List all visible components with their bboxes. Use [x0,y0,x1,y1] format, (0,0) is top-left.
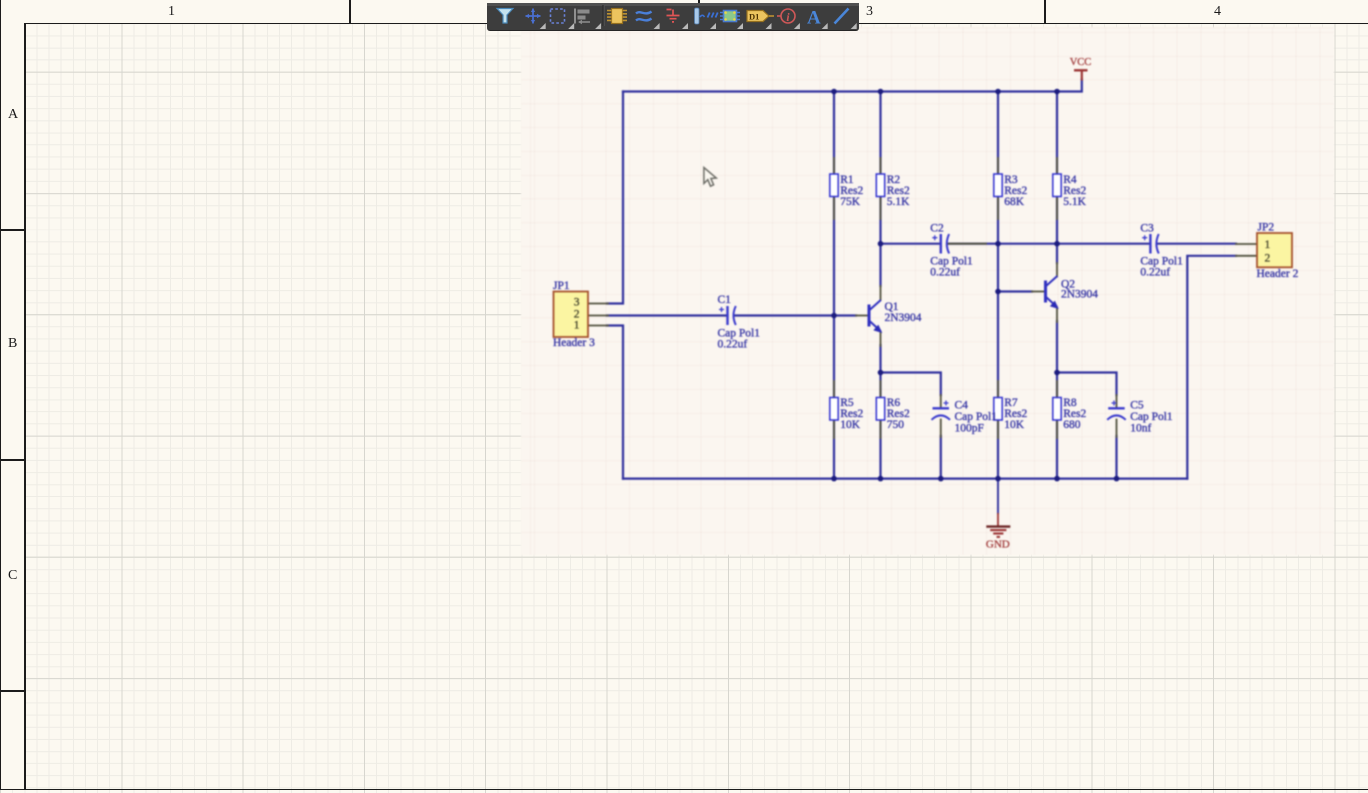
resistor R5 [830,397,864,431]
wire R2 to C2 node [879,197,881,244]
svg-text:Header 3: Header 3 [553,337,595,349]
pin stub R7 top [997,381,999,398]
svg-text:75K: 75K [840,196,861,208]
svg-text:C2: C2 [930,222,944,234]
wire Q1 base node down to R5 [833,316,835,398]
wire R8 to bottom bus [1056,420,1058,479]
wire Q2 emitter to junction [1056,321,1058,373]
wire from top bus down to JP1 pin 3 [607,92,623,304]
wire junction to R8 [1056,373,1058,398]
wire top VCC bus [623,80,1082,92]
svg-text:0.22uf: 0.22uf [930,267,960,279]
junction at C2 left node [878,241,884,247]
toolbar icon move cross [526,9,541,24]
toolbar icon sheet entry [695,8,718,24]
pin stub Q1 base [856,315,869,317]
toolbar icon place line [835,9,849,24]
wire JP2 pin 2 riser to bottom bus [1187,256,1236,479]
svg-text:Cap Pol1: Cap Pol1 [955,411,998,423]
junction bottom bus R5 [831,476,837,482]
pin stub C4 bottom [940,420,942,438]
pin stub JP1 pin 1 [588,325,608,327]
svg-text:2N3904: 2N3904 [885,312,922,324]
power port VCC [1070,57,1092,81]
capacitor C1 [718,294,761,350]
resistor R1 [830,174,864,208]
pin stub Q1 collector [880,286,882,300]
pin stub C5 bottom [1116,420,1118,438]
wire bus to R4 [1056,92,1058,175]
svg-text:C4: C4 [955,400,969,412]
wire C2 node to Q1 collector [879,244,881,286]
pin stub R3 top [997,158,999,174]
wire C1 to Q1 base node [736,314,857,316]
svg-text:100pF: 100pF [955,423,984,435]
pin stub R6 top [880,381,882,398]
svg-text:JP1: JP1 [553,280,570,292]
junction at Q2 base node [995,289,1001,295]
wire GND stem [997,479,999,514]
pin stub JP1 pin 2 [588,315,608,317]
wire Q1 emitter junction to C4 [881,373,941,396]
wire R1 to Q1 base node [833,197,835,316]
junction bottom bus C4 [938,476,944,482]
wire C2 to C3 row [948,243,1151,245]
svg-text:GND: GND [986,539,1010,551]
pin stub JP1 pin 3 [588,303,608,305]
pin stub R5 bottom [833,420,835,438]
wire JP1 pin 2 to C1 [607,314,728,316]
svg-text:Cap Pol1: Cap Pol1 [1130,411,1173,423]
toolbar icon no-ERC [777,9,795,23]
toolbar icon designator tag D1 [747,11,774,22]
svg-text:0.22uf: 0.22uf [1140,267,1170,279]
wire R7 to bottom bus [997,420,999,479]
svg-text:VCC: VCC [1070,57,1092,68]
wire C5 to bottom bus [1115,436,1117,479]
resistor R4 [1053,174,1087,208]
svg-text:5.1K: 5.1K [1063,196,1086,208]
svg-text:Header 2: Header 2 [1257,268,1299,280]
transistor Q2 [1046,276,1099,309]
svg-text:2: 2 [574,308,580,320]
wire bottom ground bus [623,478,1187,480]
power port GND [986,513,1010,551]
wire bus to R1 [833,92,835,175]
toolbar icon place part [607,9,627,24]
resistor R8 [1053,397,1087,431]
toolbar icon filter funnel [497,9,513,24]
svg-text:0.22uf: 0.22uf [718,338,748,350]
svg-text:JP2: JP2 [1258,222,1275,234]
junction bottom bus C5 [1114,476,1120,482]
toolbar icon place wire [636,12,652,21]
svg-text:750: 750 [887,419,905,431]
resistor R3 [994,174,1028,208]
svg-text:10K: 10K [1004,419,1024,431]
junction at R2 / top bus [878,89,884,95]
junction bottom bus R6 [878,476,884,482]
capacitor C5 [1107,400,1173,435]
svg-text:D1: D1 [749,12,759,22]
pin stub R5 top [833,381,835,398]
junction at R3 / C2 row [995,241,1001,247]
toolbar icon place sheet symbol [720,11,740,22]
pin stub Q2 collector [1056,263,1058,277]
pin stub Q2 base [1032,291,1046,293]
toolbar separator [602,5,604,26]
wire bus to R3 [997,92,999,175]
pin stub JP2 pin 2 [1236,255,1257,257]
svg-text:2N3904: 2N3904 [1061,289,1098,301]
svg-text:3: 3 [574,296,580,308]
wire C2 row to Q2 collector [1056,244,1058,263]
capacitor C2 [930,222,973,278]
wire Q1 emitter to junction [879,345,881,373]
junction at Q1 base node [831,313,837,319]
wire Q2 base wire [998,290,1032,292]
wire C3 to JP2 pin 1 [1158,243,1236,245]
junction at R1 / top bus [831,89,837,95]
wire C2 node row left [881,243,941,245]
wire C4 to bottom bus [940,436,942,479]
pin stub R2 top [880,158,882,174]
junction at Q1 emitter node [878,370,884,376]
junction bottom bus GND [995,476,1001,482]
dropdown arrows [540,23,546,29]
svg-text:68K: 68K [1004,196,1024,208]
pin stub R4 top [1056,158,1058,174]
svg-text:10K: 10K [840,419,861,431]
pin stub Q1 emitter [880,332,882,346]
connector JP2 [1257,222,1299,280]
svg-text:5.1K: 5.1K [887,196,910,208]
svg-text:C5: C5 [1130,400,1144,412]
wire R3 to C2 row [997,197,999,244]
junction at R3 / top bus [995,89,1001,95]
svg-text:2: 2 [1265,252,1271,264]
svg-text:C3: C3 [1140,222,1154,234]
resistor R6 [876,397,910,431]
svg-text:A: A [807,8,821,29]
wire R5 to bottom bus [833,420,835,479]
transistor Q1 [869,300,922,333]
wire bus to R2 [879,92,881,175]
junction at R4 / C2 row [1054,241,1060,247]
pin stub R7 bottom [997,420,999,438]
wire Q2 emitter junction to C5 [1057,373,1117,396]
capacitor C4 [932,400,998,435]
toolbar icon align [575,9,590,25]
pin stub C4 top [940,395,942,408]
pin stub R8 top [1056,381,1058,398]
connector JP1 [553,280,595,349]
wire JP1 pin 1 down to bottom bus [607,326,623,479]
wire Q2 base node down to R7 [997,292,999,398]
junction bottom bus R8 [1054,476,1060,482]
wire junction to R6 [879,373,881,398]
svg-text:1: 1 [574,320,580,332]
junction at Q2 emitter node [1054,370,1060,376]
pin stub R8 bottom [1056,420,1058,438]
junction at R4 / top bus [1054,89,1060,95]
pin stub C2 right [948,243,986,245]
pin stub R1 top [833,158,835,174]
wire R4 to C2 row [1056,197,1058,244]
resistor R7 [994,397,1028,431]
capacitor C3 [1140,222,1183,278]
pin stub C5 top [1116,395,1118,408]
mouse cursor [704,168,716,187]
pin stub R6 bottom [880,420,882,438]
toolbar icon select area [551,9,565,23]
wire R6 to bottom bus [879,420,881,479]
resistor R2 [876,174,910,208]
svg-text:1: 1 [1265,239,1271,251]
toolbar icon place gnd [667,10,680,22]
wire C2 row to Q2 base node [997,244,999,292]
pin stub JP2 pin 1 [1236,243,1257,245]
svg-text:10nf: 10nf [1130,423,1151,435]
svg-text:C1: C1 [718,294,732,306]
svg-text:680: 680 [1063,419,1081,431]
pin stub Q2 emitter [1056,308,1058,322]
